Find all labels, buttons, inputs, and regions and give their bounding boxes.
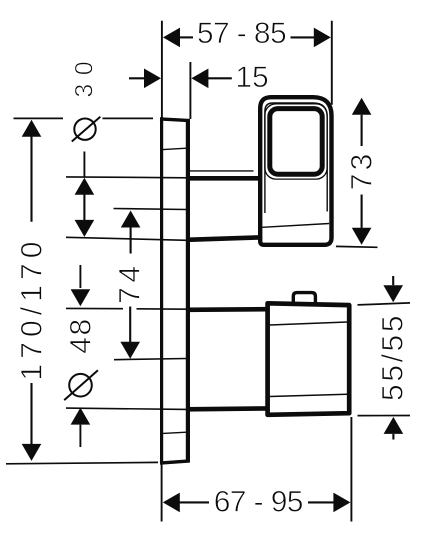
svg-text:67 - 95: 67 - 95 — [214, 486, 303, 519]
dim 73 line upper — [361, 115, 363, 146]
stem1 top edge (thick) — [187, 176, 261, 181]
extension line bottom left — [161, 465, 163, 522]
handle1 ring outer outline — [265, 104, 327, 179]
handle1 body outline — [260, 97, 331, 245]
dim 170/170 arrow top — [22, 120, 42, 137]
svg-text:55/55: 55/55 — [376, 313, 409, 401]
stem2 bottom edge (thick) — [187, 406, 270, 411]
plate top edge — [160, 119, 190, 121]
dim O48 arrow down (to stem2 top) — [71, 289, 91, 306]
dim 73 arrow top — [352, 98, 372, 115]
tick 170/170 top (right segment) — [103, 117, 154, 119]
handle2 lower band line — [270, 394, 347, 396]
handle1 ring band — [270, 109, 322, 175]
dim O30 arrow down — [75, 220, 95, 237]
stem1 bottom edge (thick) — [187, 237, 261, 239]
dim 55/55 arrow top — [383, 285, 403, 302]
dim 15 arrow right — [191, 69, 208, 89]
dim O30 line middle — [83, 195, 85, 221]
O30 leader vertical — [83, 152, 85, 177]
dim O30 arrow up — [75, 178, 95, 195]
extension line right (handle1 front) — [331, 21, 333, 105]
dim 15 tail right — [208, 77, 232, 79]
stem1 sleeve thin top line — [188, 170, 254, 172]
svg-text:15: 15 — [235, 61, 268, 94]
dim 15 tail left — [129, 77, 146, 79]
handle1 interior slanted line — [262, 224, 329, 228]
svg-text:170/170: 170/170 — [16, 236, 49, 380]
dim 170/170 arrow bottom — [22, 444, 42, 461]
dim 15 arrow left — [144, 69, 161, 89]
O48 leader top — [79, 265, 81, 288]
tick stem2 bottom edge extended — [66, 408, 187, 409]
tick 170/170 top (left segment) — [14, 117, 64, 119]
O30 circle glyph — [74, 119, 95, 140]
dim O48 arrow up (to stem2 bottom) — [71, 408, 91, 425]
tick 74 bottom (stem2 centerline) — [114, 359, 187, 360]
svg-text:74: 74 — [114, 261, 147, 304]
dim 55/55 leader top — [392, 276, 394, 285]
tick stem2 top edge extended right segment — [137, 308, 188, 310]
dim 67-95 line left — [179, 501, 209, 503]
dim 57-85 line right — [291, 36, 316, 38]
handle2 knob on top — [293, 293, 315, 304]
handle2 upper band line — [270, 322, 347, 325]
O48 circle glyph — [69, 374, 92, 397]
dim 74 line upper — [130, 228, 132, 254]
extension line for 15 (plate front) — [189, 62, 191, 119]
tick 73 bottom (handle1 underside) — [336, 245, 378, 248]
dim 55/55 arrow bottom — [384, 417, 404, 434]
plate internal line lower — [163, 432, 187, 433]
dim 67-95 arrow left — [163, 493, 180, 513]
plate bottom edge — [160, 461, 190, 463]
dim 73 arrow bottom — [352, 228, 372, 245]
svg-text:57 - 85: 57 - 85 — [197, 17, 286, 50]
plate right edge — [186, 119, 190, 462]
plate left edge — [160, 117, 163, 464]
dim 74 arrow bottom — [120, 342, 140, 359]
dim 74 line lower — [129, 307, 131, 343]
stem2 top edge (thick) — [187, 307, 270, 312]
O48 leader bottom — [79, 425, 81, 447]
dim 74 arrow top — [121, 211, 141, 228]
dim 67-95 line right — [308, 501, 335, 503]
tick 55/55 top (handle2 top) — [358, 303, 411, 305]
dim 67-95 arrow right — [333, 493, 350, 513]
svg-text:48: 48 — [65, 317, 98, 354]
extension line left (wall plane) — [161, 21, 163, 118]
O30 slash — [72, 117, 101, 142]
tick 170/170 bottom — [6, 462, 158, 463]
tick 74 top (stem1 centerline) — [114, 209, 187, 210]
svg-text:30: 30 — [71, 53, 99, 98]
O48 slash — [64, 370, 98, 400]
plate internal line upper — [163, 148, 187, 149]
dim 170/170 line upper — [30, 137, 32, 222]
tick stem2 top edge extended left segment — [66, 307, 123, 309]
extension line bottom right (handle2 front) — [350, 417, 352, 522]
dim 170/170 line lower — [30, 383, 32, 444]
tick stem1 top edge extended (O30 upper) — [66, 176, 187, 179]
dim 73 line lower — [361, 195, 363, 228]
handle2 body outline — [268, 303, 350, 415]
svg-text:73: 73 — [345, 151, 378, 191]
dim 57-85 arrow left — [163, 28, 180, 48]
handle1 inner contour line — [265, 103, 327, 213]
tick stem1 bottom edge extended (O30 lower) — [66, 237, 187, 240]
dim 57-85 line left — [180, 36, 194, 38]
dim 55/55 leader bottom — [392, 434, 394, 440]
dim 57-85 arrow right — [314, 28, 331, 48]
tick 55/55 bottom (handle2 underside) — [358, 415, 411, 417]
